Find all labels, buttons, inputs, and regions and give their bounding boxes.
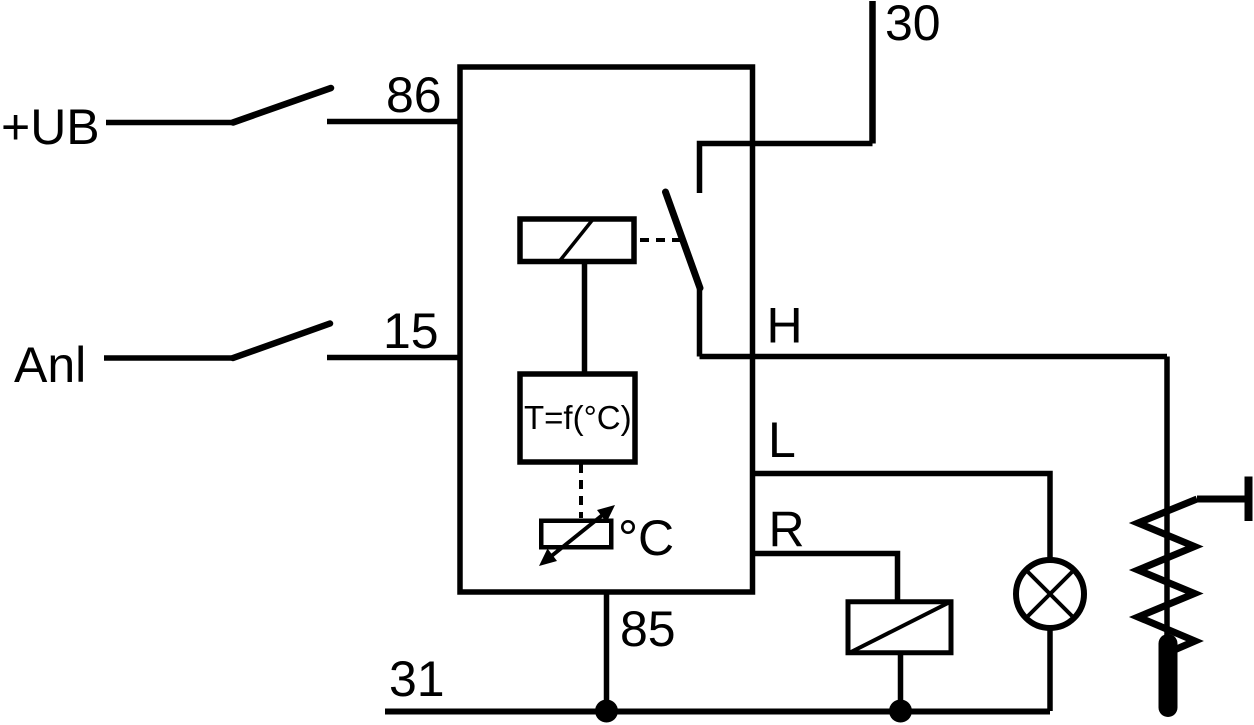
wire 30 into unit with fixed contact stub: [700, 144, 873, 194]
potentiometer body: [541, 521, 611, 548]
relay coil K1: [520, 219, 634, 262]
junction dot under K2: [889, 700, 912, 723]
switch S2 blade (Anl starter switch): [233, 324, 330, 359]
ground bus 31: [385, 709, 1050, 715]
svg-text:+UB: +UB: [1, 99, 100, 155]
svg-text:85: 85: [620, 601, 676, 657]
glow plug pin body: [1159, 644, 1178, 708]
glow plug terminal lead: [1197, 496, 1247, 503]
lamp cross stroke 2: [1028, 572, 1072, 616]
wire H output: [700, 354, 1168, 360]
lamp cross stroke 1: [1028, 572, 1072, 616]
svg-text:Anl: Anl: [14, 337, 86, 393]
svg-text:L: L: [768, 412, 796, 468]
coil K1 diagonal mark: [558, 218, 594, 263]
wire to terminal 15: [327, 355, 462, 361]
relay coil K2: [848, 602, 951, 653]
wire terminal 85 stem: [604, 592, 610, 711]
contact lower lead: [697, 288, 703, 357]
dashed actuating link: [640, 238, 680, 242]
lamp (indicator light): [1016, 560, 1084, 628]
svg-text:R: R: [769, 502, 805, 558]
svg-text:30: 30: [885, 0, 941, 51]
svg-text:31: 31: [389, 651, 445, 707]
control box T=f(°C): [520, 374, 635, 462]
lamp bottom lead: [1047, 628, 1053, 711]
potentiometer arrow: [549, 513, 605, 558]
wire terminal 30 vertical: [869, 1, 876, 144]
coil K1 stem to control box: [582, 261, 588, 374]
contact blade (internal switch): [666, 192, 701, 288]
dashed stem to potentiometer: [579, 464, 583, 518]
coil K2 bottom stem: [898, 652, 904, 711]
wire to terminal 86: [327, 119, 462, 125]
svg-text:H: H: [767, 298, 803, 354]
svg-text:86: 86: [386, 67, 442, 123]
wire L output: [755, 474, 1050, 563]
wire +UB feed: [106, 120, 233, 126]
glow plug terminal bar: [1245, 477, 1253, 522]
svg-text:15: 15: [383, 303, 439, 359]
svg-text:°C: °C: [618, 510, 674, 566]
relay unit box U1: [460, 67, 753, 592]
junction dot at 85: [595, 700, 618, 723]
wire Anl feed: [104, 355, 233, 361]
wire R output: [755, 554, 898, 603]
svg-text:T=f(°C): T=f(°C): [524, 399, 632, 436]
wire H drop to glow plug: [1164, 357, 1170, 651]
switch S1 blade (+UB supply switch): [233, 88, 331, 123]
coil K2 diagonal mark: [850, 602, 951, 653]
glow plug heater coil zigzag: [1138, 499, 1197, 651]
